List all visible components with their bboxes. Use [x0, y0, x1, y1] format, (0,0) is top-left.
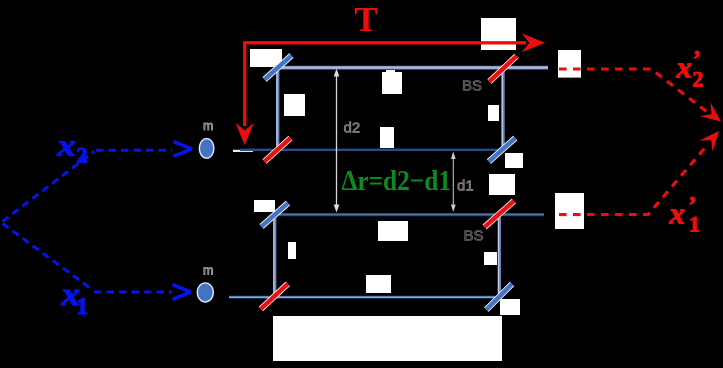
svg-text:2: 2	[77, 143, 88, 168]
label box F (on upper right vertical)	[488, 105, 499, 121]
label box K (on lower right vertical)	[484, 252, 497, 265]
svg-text:d1: d1	[457, 178, 474, 195]
mirror (blue) lower-right of top interferometer	[489, 138, 516, 162]
svg-text:x: x	[56, 129, 75, 163]
red dashed output path x1' (horizontal then diagonal with arrow)	[559, 131, 719, 215]
svg-text:m: m	[203, 264, 213, 278]
distance marker d1 (vertical double arrow)	[451, 152, 456, 213]
svg-text:BS: BS	[462, 78, 482, 95]
distance marker d2 (vertical double arrow)	[334, 69, 340, 213]
beam: upper interferometer bottom arm (input beam)	[240, 149, 503, 151]
beam: upper interferometer left vertical arm	[275, 65, 279, 150]
source dot m (upper)	[199, 139, 213, 159]
blue dashed input path x1 (diagonal from vertex)	[3, 224, 93, 290]
label box D (upper arm middle)	[382, 69, 402, 94]
label T	[354, 0, 377, 39]
label box Q (lower interferometer bottom middle)	[366, 275, 391, 293]
svg-text:x: x	[676, 50, 693, 85]
label box H (below box G)	[489, 174, 515, 195]
label d1	[457, 178, 474, 195]
label box A (upper-left of top interferometer)	[250, 49, 282, 67]
mirror (blue) upper-left of bottom interferometer	[262, 203, 289, 227]
label box I (upper output port)	[558, 50, 581, 78]
svg-text:T: T	[354, 0, 377, 39]
label box P (lower interferometer top middle)	[378, 221, 408, 241]
label x2 (blue)	[56, 129, 87, 168]
svg-text:’: ’	[693, 47, 701, 73]
beam: white input stub into upper interferometer	[233, 150, 253, 152]
beam splitter (red) lower-left of bottom interferometer	[261, 284, 288, 309]
label delta-r equation (green)	[342, 165, 452, 197]
svg-text:BS: BS	[464, 228, 484, 245]
label box C (above T arrow head)	[481, 18, 516, 50]
svg-text:x: x	[669, 196, 686, 231]
label BS (top interferometer)	[462, 78, 482, 95]
beam: lower interferometer top arm	[275, 213, 544, 216]
blue dashed input path x2 (horizontal with arrow)	[96, 142, 192, 157]
label x1' (red)	[669, 193, 701, 237]
svg-text:d2: d2	[344, 120, 361, 137]
red T delay path: horizontal segment with right arrow	[243, 33, 545, 52]
blue dashed input path x2 (diagonal from vertex)	[3, 152, 95, 222]
label d2	[344, 120, 361, 137]
label x1 (blue)	[60, 276, 88, 319]
label box G (right of upper-right mirror)	[505, 153, 523, 168]
label box M (big caption box at bottom)	[273, 316, 502, 361]
label m (lower)	[203, 264, 213, 278]
beam splitter BS (red) upper-right of bottom interferometer	[485, 201, 514, 227]
red dashed output path x2' (horizontal then diagonal with arrow)	[559, 69, 721, 122]
beam: lower interferometer right vertical arm	[497, 214, 501, 297]
mirror (blue) lower-right of bottom interferometer	[486, 284, 512, 310]
label box N (left of lower interferometer top-left corner)	[254, 200, 275, 212]
mirror (blue) upper-left of top interferometer	[265, 56, 292, 80]
red T delay path: vertical segment with down arrow	[236, 41, 254, 145]
label x2' (red)	[676, 47, 704, 92]
label box O (below lower top-left corner)	[288, 242, 296, 259]
label box E (above middle beam)	[380, 127, 394, 148]
label box J (lower output port)	[555, 193, 584, 229]
beam splitter BS (red) upper-right of top interferometer	[490, 56, 517, 82]
label m (upper)	[203, 119, 213, 133]
blue dashed input path x1 (horizontal with arrow)	[94, 285, 191, 300]
source dot m (lower)	[197, 283, 213, 302]
beam: upper interferometer top arm	[275, 65, 548, 70]
label BS (bottom interferometer)	[464, 228, 484, 245]
beam: lower interferometer bottom arm (input beam)	[229, 296, 502, 299]
beam: lower interferometer left vertical arm	[272, 213, 276, 297]
label box L (right of lower bottom mirror)	[500, 299, 520, 315]
svg-text:m: m	[203, 119, 213, 133]
beam: upper interferometer right vertical arm	[501, 65, 505, 150]
svg-text:1: 1	[77, 294, 89, 319]
svg-text:Δr=d2−d1: Δr=d2−d1	[342, 165, 452, 197]
beam splitter (red) lower-left of top interferometer	[265, 138, 291, 162]
svg-text:’: ’	[689, 193, 697, 219]
label box B (below upper-left corner)	[284, 94, 305, 116]
